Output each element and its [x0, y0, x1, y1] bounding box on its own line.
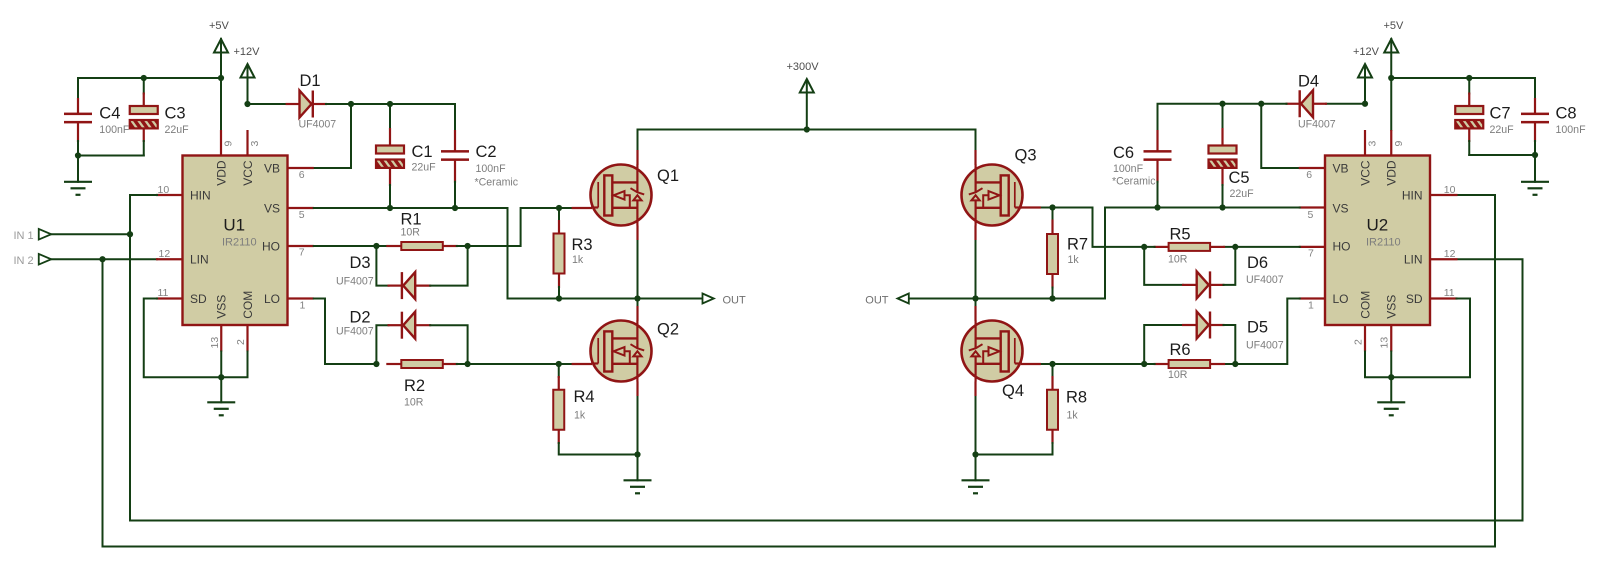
pin Q4 drain: [974, 306, 976, 321]
wire LO net right: [1224, 299, 1300, 365]
wire R5 to gate riser: [1040, 208, 1155, 247]
svg-text:11: 11: [1444, 287, 1455, 299]
pin Q1 source: [636, 226, 638, 241]
junction Q3 gate: [1049, 204, 1055, 210]
pin R8 top: [1051, 376, 1053, 391]
svg-text:1: 1: [300, 300, 306, 312]
junction C5 top: [1219, 101, 1225, 107]
wire HO net right: [1224, 246, 1300, 248]
svg-text:SD: SD: [1406, 292, 1423, 306]
wire D1 anode net: [248, 103, 287, 105]
wire COM lead: [221, 352, 247, 378]
svg-text:1k: 1k: [572, 254, 584, 266]
power +300V symbol: [800, 79, 814, 93]
svg-text:LIN: LIN: [190, 253, 209, 267]
svg-text:D1: D1: [300, 72, 321, 90]
wire ground stem: [77, 156, 79, 182]
wire R3 top lead: [558, 208, 560, 221]
svg-text:11: 11: [158, 287, 169, 299]
junction C1/VS: [387, 205, 393, 211]
svg-text:C1: C1: [412, 143, 433, 161]
svg-text:OUT: OUT: [723, 295, 747, 307]
wire C5 bottom lead: [1222, 185, 1224, 208]
pin D2 cathode lead: [388, 324, 404, 326]
pin U1 HO: [288, 245, 314, 247]
wire +5V rail: [78, 77, 221, 79]
junction +300V rail: [804, 126, 810, 132]
pin C4 top: [77, 98, 79, 114]
wire Q4 ground stem: [975, 455, 977, 481]
junction U1 ground: [218, 374, 224, 380]
ground under U1: [207, 402, 235, 415]
junction R5 right: [1232, 244, 1238, 250]
op-amp driver U2 IR2110: [1325, 156, 1430, 326]
svg-text:22uF: 22uF: [165, 124, 190, 136]
pin R7 bottom: [1051, 274, 1053, 289]
wire D6 right riser: [1224, 247, 1236, 285]
svg-text:7: 7: [299, 247, 305, 259]
svg-text:VB: VB: [264, 162, 280, 176]
wire C4 bottom lead: [77, 141, 79, 156]
pin U2 HO: [1299, 246, 1325, 248]
svg-text:10: 10: [1444, 184, 1456, 196]
power +5V symbol: [214, 39, 228, 53]
pin C2 top: [454, 130, 456, 152]
pin U2 VDD (9): [1390, 130, 1392, 156]
pin U1 VS: [288, 207, 314, 209]
pin U1 LIN (12): [156, 258, 183, 260]
resistor R5: [1169, 243, 1211, 251]
capacitor C8: [1521, 113, 1549, 124]
junction R1 left: [373, 243, 379, 249]
wire C2 bottom lead: [454, 182, 456, 208]
pin Q3 source: [974, 226, 976, 241]
pin D6 cathode lead: [1210, 284, 1225, 286]
junction Q1 source/OUT: [634, 295, 640, 301]
pin U1 COM (2): [246, 325, 248, 352]
svg-text:HIN: HIN: [190, 188, 211, 202]
pin U2 SD (11): [1430, 297, 1458, 299]
svg-text:5: 5: [299, 209, 305, 221]
power +5V right symbol: [1384, 39, 1398, 53]
wire Q4 drain column: [975, 299, 977, 455]
wire R8 top lead: [1052, 364, 1054, 377]
junction Q2 source/R4: [634, 451, 640, 457]
pin Q2 drain: [636, 306, 638, 321]
svg-text:C6: C6: [1113, 144, 1134, 162]
svg-text:VS: VS: [264, 202, 280, 216]
svg-text:COM: COM: [241, 291, 255, 319]
resistor R3: [554, 234, 565, 274]
diode D4: [1301, 90, 1313, 117]
svg-text:+5V: +5V: [1384, 20, 1405, 32]
junction IN2/feedback: [99, 256, 105, 262]
pin Q1 gate lead: [572, 207, 592, 209]
wire R7 bottom lead: [1052, 288, 1054, 299]
svg-text:5: 5: [1308, 209, 1314, 221]
wire C4 top lead: [77, 78, 79, 99]
pin R6 left: [1154, 363, 1169, 365]
pin U1 VDD (9): [220, 130, 222, 156]
svg-text:100nF: 100nF: [99, 124, 130, 136]
diode D1: [300, 91, 312, 118]
wire C1 top lead: [389, 104, 391, 129]
wire Q3 drain column: [975, 130, 977, 299]
junction R6 left: [1141, 361, 1147, 367]
junction C1 top: [387, 101, 393, 107]
pin R1 left: [386, 245, 401, 247]
wire D6 left riser: [1144, 247, 1183, 285]
pin D5 anode lead: [1182, 324, 1198, 326]
wire VB rail: [326, 104, 455, 131]
pin D4 anode: [1313, 103, 1327, 105]
wire VSS lead right: [1390, 352, 1392, 378]
svg-text:+12V: +12V: [234, 46, 261, 58]
pin D3 anode lead: [415, 285, 431, 287]
junction C3/+5V rail: [141, 75, 147, 81]
svg-text:6: 6: [1306, 169, 1312, 181]
wire +5V stem: [220, 39, 222, 130]
wire R6 to Q4 gate: [1040, 363, 1155, 365]
wire +12V stem: [247, 65, 249, 104]
svg-text:OUT: OUT: [865, 295, 889, 307]
ground under C8: [1521, 182, 1549, 195]
svg-text:VCC: VCC: [241, 160, 255, 186]
pin C1 bottom: [389, 168, 391, 187]
pin D1 cathode: [314, 103, 328, 105]
svg-text:Q4: Q4: [1002, 382, 1024, 400]
power +12V symbol: [241, 64, 255, 78]
svg-text:C7: C7: [1490, 104, 1511, 122]
wire IN2 vertical: [102, 259, 104, 546]
ground under Q4: [962, 480, 990, 493]
wire U2 ground stem: [1390, 377, 1392, 402]
junction C6/VS: [1154, 204, 1160, 210]
svg-text:1k: 1k: [1067, 410, 1079, 422]
svg-text:Q2: Q2: [657, 321, 679, 339]
pin U2 LIN (12): [1430, 258, 1458, 260]
pin U2 VCC (3): [1364, 130, 1366, 156]
pin U2 HIN (10): [1430, 194, 1458, 196]
svg-text:Q1: Q1: [657, 167, 679, 185]
svg-text:100nF: 100nF: [476, 163, 507, 175]
junction ground right: [1532, 152, 1538, 158]
pin Q2 source: [636, 382, 638, 397]
wire SD loop right: [1391, 299, 1470, 378]
pin R2 left: [386, 363, 401, 365]
junction Q4 source/R8: [972, 451, 978, 457]
svg-text:13: 13: [1379, 337, 1391, 349]
svg-text:+300V: +300V: [787, 61, 820, 73]
svg-text:2: 2: [235, 339, 247, 345]
wire COM lead right: [1365, 352, 1391, 378]
junction Q3 source/OUT: [972, 295, 978, 301]
wire VS net right: [910, 208, 1300, 299]
svg-text:10: 10: [158, 184, 170, 196]
wire D2 right riser: [430, 325, 467, 364]
svg-text:IN 1: IN 1: [14, 230, 34, 242]
wire C1 bottom lead: [389, 185, 391, 208]
junction R6 right: [1232, 361, 1238, 367]
svg-text:D4: D4: [1298, 72, 1319, 90]
wire D4 anode net: [1326, 103, 1365, 105]
wire +5V stem right: [1390, 39, 1392, 130]
svg-text:LIN: LIN: [1404, 253, 1423, 267]
pin R5 right: [1210, 246, 1225, 248]
terminal IN 1: [39, 229, 52, 240]
wire D5 left riser: [1144, 325, 1183, 364]
pin D6 anode lead: [1182, 284, 1198, 286]
junction Q1 gate: [556, 205, 562, 211]
pin Q2 gate lead: [572, 363, 592, 365]
pin C4 bottom: [77, 123, 79, 143]
wire +12V right stem: [1364, 65, 1366, 104]
diode D6: [1197, 271, 1209, 298]
capacitor C4: [64, 113, 92, 124]
wire R4 to source: [559, 443, 638, 455]
ground under Q2: [624, 480, 652, 493]
svg-text:VS: VS: [1333, 202, 1349, 216]
svg-text:C5: C5: [1229, 169, 1250, 187]
svg-text:D2: D2: [350, 309, 371, 327]
junction VB riser: [348, 101, 354, 107]
svg-text:12: 12: [1444, 248, 1456, 260]
svg-text:UF4007: UF4007: [1298, 119, 1336, 131]
svg-text:R6: R6: [1170, 341, 1191, 359]
svg-text:HO: HO: [1333, 240, 1351, 254]
capacitor C5: [1209, 146, 1237, 154]
diode D2: [403, 312, 415, 339]
wire Q2 drain column: [637, 299, 639, 455]
pin D3 cathode lead: [388, 285, 404, 287]
junction C7 top: [1466, 75, 1472, 81]
wire HO net: [314, 245, 387, 247]
pin C1 top: [389, 128, 391, 147]
svg-text:7: 7: [1308, 248, 1314, 260]
wire C6 bottom lead: [1157, 182, 1159, 208]
svg-text:C2: C2: [476, 143, 497, 161]
pin U2 VS: [1299, 206, 1325, 208]
pin C7 top: [1468, 93, 1470, 108]
pin U2 COM (2): [1364, 325, 1366, 352]
wire U1 ground stem: [220, 377, 222, 402]
pin D2 anode lead: [415, 324, 431, 326]
svg-text:22uF: 22uF: [412, 162, 437, 174]
svg-text:COM: COM: [1358, 291, 1372, 319]
terminal OUT right: [898, 294, 909, 304]
svg-text:10R: 10R: [401, 227, 421, 239]
svg-text:+5V: +5V: [209, 20, 230, 32]
junction R1 right: [465, 243, 471, 249]
pin R3 top: [558, 220, 560, 234]
junction +12V/D4: [1362, 101, 1368, 107]
wire VSS lead: [220, 352, 222, 378]
svg-text:22uF: 22uF: [1490, 124, 1515, 136]
junction R7/OUT: [1049, 295, 1055, 301]
capacitor C7: [1455, 106, 1483, 114]
pin D4 cathode: [1286, 103, 1300, 105]
svg-text:UF4007: UF4007: [336, 326, 374, 338]
svg-text:*Ceramic: *Ceramic: [475, 177, 519, 189]
pin C3 bottom: [143, 128, 145, 143]
svg-text:C3: C3: [165, 104, 186, 122]
pin Q3 drain: [974, 150, 976, 165]
capacitor C2: [441, 150, 469, 161]
svg-text:VCC: VCC: [1358, 160, 1372, 186]
svg-text:3: 3: [1367, 141, 1379, 147]
svg-text:R5: R5: [1170, 225, 1191, 243]
wire +300V stem: [806, 92, 808, 130]
svg-text:6: 6: [299, 169, 305, 181]
pin U2 VSS (13): [1390, 325, 1392, 352]
svg-text:R8: R8: [1066, 388, 1087, 406]
pin C6 bottom: [1156, 161, 1158, 183]
svg-text:UF4007: UF4007: [336, 276, 374, 288]
junction IN1/HIN: [127, 231, 133, 237]
pin C3 top: [143, 93, 145, 108]
svg-text:IN 2: IN 2: [14, 255, 34, 267]
junction R5 left: [1141, 244, 1147, 250]
resistor R4: [553, 390, 564, 430]
wire C7 top lead: [1468, 78, 1470, 94]
wire cap ground link right: [1469, 154, 1535, 156]
svg-text:VB: VB: [1333, 162, 1349, 176]
svg-text:3: 3: [249, 141, 261, 147]
wire ground stem right: [1534, 155, 1536, 182]
svg-text:1: 1: [1308, 300, 1314, 312]
pin U2 VB: [1299, 167, 1325, 169]
svg-text:100nF: 100nF: [1113, 163, 1144, 175]
svg-text:VSS: VSS: [1385, 295, 1399, 319]
svg-text:12: 12: [159, 248, 171, 260]
pin Q3 gate lead: [1021, 206, 1041, 208]
capacitor C6: [1144, 150, 1172, 161]
pin C6 top: [1156, 130, 1158, 152]
terminal IN 2: [39, 254, 52, 265]
ground under U2: [1377, 402, 1405, 415]
svg-text:U2: U2: [1367, 215, 1389, 234]
pin U1 SD (11): [156, 297, 183, 299]
svg-text:R3: R3: [572, 236, 593, 254]
wire Q1 drain column: [637, 130, 639, 299]
junction +12V/D1: [244, 101, 250, 107]
junction R2 right: [465, 361, 471, 367]
wire C8 top lead: [1534, 78, 1536, 99]
svg-text:C8: C8: [1556, 104, 1577, 122]
svg-text:HIN: HIN: [1402, 188, 1423, 202]
junction ground node: [75, 152, 81, 158]
transistor Q1: [591, 165, 652, 226]
pin R4 bottom: [558, 430, 560, 444]
capacitor C3: [130, 106, 158, 114]
svg-text:UF4007: UF4007: [1246, 340, 1284, 352]
svg-text:*Ceramic: *Ceramic: [1112, 175, 1156, 187]
svg-text:22uF: 22uF: [1230, 188, 1255, 200]
pin Q4 source: [974, 382, 976, 397]
wire +5V rail right: [1391, 77, 1535, 79]
transistor Q3: [962, 165, 1023, 226]
wire R1 to gate riser: [457, 208, 573, 246]
transistor Q2: [591, 321, 652, 382]
junction R2 left: [373, 361, 379, 367]
power +12V right symbol: [1358, 64, 1372, 78]
svg-text:1k: 1k: [1068, 254, 1080, 266]
junction VB riser right: [1258, 101, 1264, 107]
pin R3 bottom: [558, 274, 560, 289]
svg-text:D6: D6: [1247, 254, 1268, 272]
pin Q4 gate lead: [1021, 363, 1041, 365]
svg-text:R4: R4: [574, 388, 595, 406]
wire C8 bottom lead: [1534, 141, 1536, 155]
svg-text:10R: 10R: [1168, 254, 1188, 266]
pin R2 right: [443, 363, 458, 365]
junction C5/VS: [1219, 204, 1225, 210]
svg-text:LO: LO: [1333, 292, 1349, 306]
wire LO net: [314, 299, 377, 365]
pin R5 left: [1154, 246, 1169, 248]
svg-text:9: 9: [1393, 141, 1405, 147]
svg-text:D3: D3: [350, 254, 371, 272]
wire Q2 ground stem: [637, 455, 639, 481]
pin R4 top: [558, 376, 560, 391]
wire VB riser: [313, 104, 351, 168]
svg-text:10R: 10R: [404, 397, 424, 409]
wire C3 top lead: [143, 78, 145, 94]
wire SD loop: [144, 299, 222, 378]
junction Q4 gate: [1049, 361, 1055, 367]
pin U1 VSS (13): [220, 325, 222, 352]
diode D3: [403, 272, 415, 299]
svg-text:UF4007: UF4007: [1246, 274, 1284, 286]
pin U1 HIN (10): [156, 194, 183, 196]
wire C3 bottom lead: [143, 141, 145, 156]
svg-text:LO: LO: [264, 292, 280, 306]
pin D5 cathode lead: [1210, 324, 1225, 326]
svg-text:1k: 1k: [574, 410, 586, 422]
svg-text:2: 2: [1353, 339, 1365, 345]
wire D3 left riser: [376, 246, 388, 286]
pin R8 bottom: [1051, 430, 1053, 444]
svg-text:D5: D5: [1247, 318, 1268, 336]
wire C7 bottom lead: [1468, 141, 1470, 155]
resistor R7: [1047, 234, 1058, 274]
svg-text:10R: 10R: [1168, 369, 1188, 381]
capacitor C1: [376, 146, 404, 154]
pin U2 LO: [1299, 297, 1325, 299]
wire R4 top lead: [558, 364, 560, 377]
wire D3 right riser: [430, 246, 467, 286]
pin U1 LO: [288, 297, 314, 299]
junction +5V stem: [218, 75, 224, 81]
svg-text:UF4007: UF4007: [299, 119, 337, 131]
wire IN2 net: [51, 258, 157, 260]
svg-text:+12V: +12V: [1353, 46, 1380, 58]
svg-text:SD: SD: [190, 292, 207, 306]
svg-text:VSS: VSS: [215, 295, 229, 319]
junction U2 ground: [1388, 374, 1394, 380]
wire +300V rail: [638, 129, 976, 131]
junction C2/VS: [452, 205, 458, 211]
junction R3/OUT: [556, 295, 562, 301]
svg-text:IR2110: IR2110: [222, 237, 257, 249]
pin C7 bottom: [1468, 128, 1470, 143]
wire D5 right riser: [1224, 325, 1236, 364]
pin C5 bottom: [1221, 168, 1223, 187]
wire IN1 net: [51, 233, 130, 235]
svg-text:R7: R7: [1067, 235, 1088, 253]
pin U1 VCC (3): [246, 130, 248, 156]
resistor R6: [1169, 360, 1211, 368]
